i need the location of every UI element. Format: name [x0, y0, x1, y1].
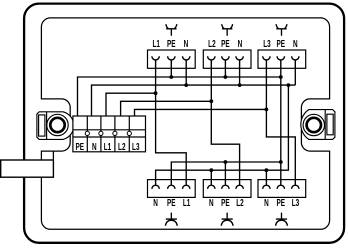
svg-text:N: N: [293, 37, 298, 49]
svg-text:L3: L3: [263, 37, 271, 49]
svg-text:N: N: [153, 196, 158, 208]
svg-text:PE: PE: [167, 37, 176, 49]
svg-text:N: N: [209, 196, 214, 208]
svg-text:PE: PE: [76, 140, 85, 152]
svg-text:L3: L3: [292, 196, 300, 208]
svg-text:PE: PE: [277, 37, 286, 49]
svg-text:N: N: [92, 140, 97, 152]
svg-text:L1: L1: [104, 140, 112, 152]
svg-text:L2: L2: [118, 140, 126, 152]
svg-text:L3: L3: [132, 140, 140, 152]
svg-text:PE: PE: [277, 196, 286, 208]
svg-text:N: N: [184, 37, 189, 49]
svg-text:PE: PE: [167, 196, 176, 208]
svg-text:L1: L1: [152, 37, 160, 49]
svg-text:L2: L2: [208, 37, 216, 49]
svg-text:PE: PE: [221, 37, 230, 49]
svg-text:L1: L1: [183, 196, 191, 208]
svg-text:L2: L2: [236, 196, 244, 208]
svg-text:N: N: [264, 196, 269, 208]
svg-text:PE: PE: [221, 196, 230, 208]
svg-text:N: N: [238, 37, 243, 49]
